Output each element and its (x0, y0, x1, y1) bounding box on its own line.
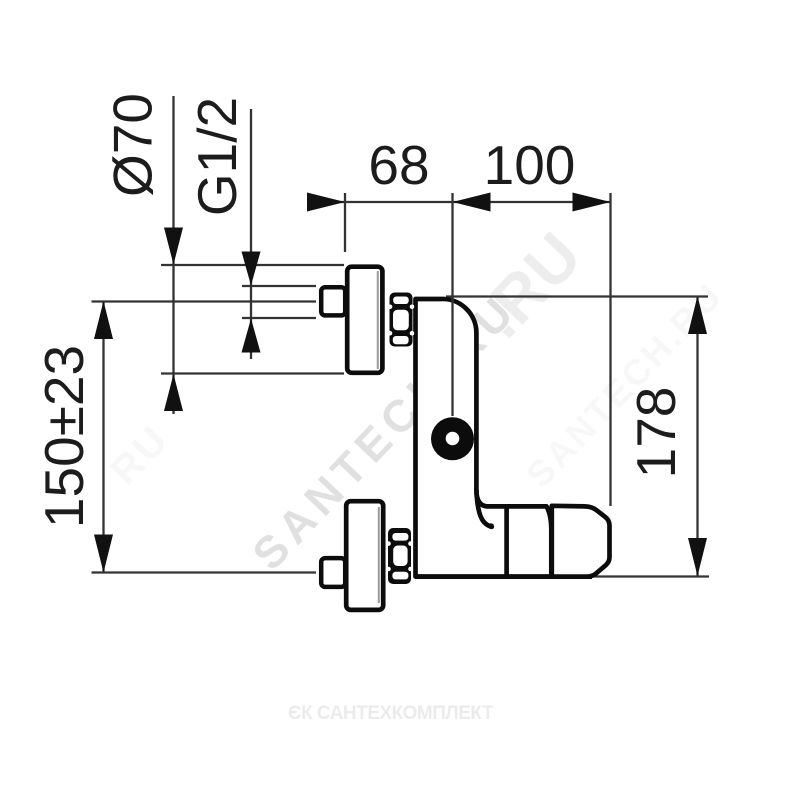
extension line bottom escutcheon edge (O70 bottom) (161, 372, 344, 374)
arrow at axis pointing left (453, 193, 491, 212)
arrow O70 down (164, 228, 183, 265)
top escutcheon face line (377, 271, 379, 369)
dimension line 68/100 horizontal (308, 201, 611, 203)
thread line middle / 150 top extension (92, 300, 317, 302)
arrow at handle pointing right (573, 193, 611, 212)
arrow at wall plane pointing right (307, 193, 345, 212)
valve separator (504, 506, 509, 576)
arrow G1/2 up (242, 319, 261, 353)
screw circle inner (446, 432, 460, 446)
handle cap (552, 506, 610, 577)
bottom escutcheon face line (378, 507, 380, 603)
extension line top escutcheon edge (O70 top) (161, 264, 344, 266)
svg-text:ЄК САНТЕХКОМПЛЕКТ: ЄК САНТЕХКОМПЛЕКТ (288, 703, 494, 724)
bottom nut (386, 528, 413, 584)
bottom escutcheon (346, 501, 383, 610)
dimension line G1/2 (250, 109, 252, 359)
extension line handle face x611 (609, 193, 611, 506)
extension line wall plane x345 (344, 193, 346, 252)
arrow O70 up (164, 374, 183, 411)
extension line body axis x452 (451, 193, 453, 416)
dimension line 178 (696, 296, 698, 576)
dimension line 150+-23 (102, 302, 104, 573)
top nut (388, 293, 415, 347)
extension line 150 bottom (92, 571, 317, 573)
svg-text:178: 178 (625, 387, 687, 479)
arrow 178 up (688, 296, 707, 334)
spout hook (476, 490, 491, 527)
top nipple (321, 287, 345, 315)
arrow 178 down (688, 538, 707, 576)
screw circle outer (431, 417, 474, 460)
body of mixer (416, 299, 552, 577)
dimension line O70 (172, 96, 174, 414)
bottom nipple (321, 558, 345, 587)
extension line 178 bottom (592, 575, 709, 577)
svg-text:100: 100 (484, 134, 576, 196)
top escutcheon (347, 267, 382, 373)
arrow 150 up (94, 301, 113, 339)
svg-text:68: 68 (368, 134, 429, 196)
svg-text:150±23: 150±23 (33, 345, 95, 528)
arrow G1/2 down (242, 252, 261, 286)
svg-text:Ø70: Ø70 (102, 93, 164, 197)
thread line top (242, 285, 316, 287)
arrow 150 down (94, 535, 113, 573)
body bottom edge (416, 574, 593, 579)
svg-text:G1/2: G1/2 (186, 97, 248, 216)
extension line 178 top (446, 295, 708, 297)
thread line bottom (242, 317, 316, 319)
